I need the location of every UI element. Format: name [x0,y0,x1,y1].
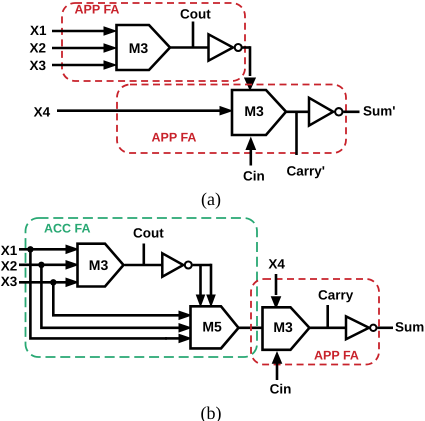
inverter U2 (a) [209,34,242,60]
svg-text:X3: X3 [1,274,18,289]
svg-text:X3: X3 [30,58,47,73]
node Carry stub (b) [326,305,329,328]
majority gate M5 (b) [191,306,239,348]
svg-text:APP FA: APP FA [75,3,120,17]
svg-text:M3: M3 [89,257,109,273]
label X1 (b) [1,243,18,258]
node Carry' stub (a) [295,112,298,155]
label X1 (a) [30,23,47,38]
label X4 (a) [34,104,51,119]
svg-text:(a): (a) [201,189,221,209]
majority gate M3 U7 (b) [263,307,310,350]
wire X4 into second M3 (a) [57,106,234,116]
wire X1 branch to M5 (b) [30,249,192,343]
svg-text:Cin: Cin [270,382,292,397]
label APP FA (a, second stage) [152,131,197,145]
wire second M3 output to inverter (a) [285,111,310,114]
svg-text:M5: M5 [202,319,222,335]
svg-text:M3: M3 [273,319,293,335]
wire M3 output to inverter (a) [170,46,209,49]
wire Cin into M3 (b) [272,351,283,380]
wire M3 output to inverter (b) [309,326,347,329]
svg-text:APP FA: APP FA [314,349,359,363]
svg-text:X2: X2 [30,40,47,55]
svg-text:Cin: Cin [243,169,265,184]
node Cout stub (b) [143,244,146,266]
svg-text:X2: X2 [1,258,18,273]
majority gate M3 U5 (b) [78,244,124,287]
svg-text:X4: X4 [34,104,51,119]
svg-text:Carry: Carry [318,287,354,302]
wire X2 into M3 (a) [52,43,118,53]
majority gate M3 U1 (a) [117,25,171,70]
label Cin (b) [270,382,292,397]
svg-text:APP FA: APP FA [152,131,197,145]
label Carry' (a) [287,164,325,179]
node Cout stub (a) [192,22,195,48]
svg-text:ACC FA: ACC FA [44,222,91,236]
wire X1 into M3 (a) [52,26,118,36]
wire M3 output to inverter (b) [125,264,164,267]
caption (b) [201,403,222,421]
svg-text:Cout: Cout [133,226,164,241]
svg-text:Carry': Carry' [287,164,325,179]
dashed box ACC FA (b) [26,218,258,357]
label APP FA (b) [314,349,359,363]
label Cout (b) [133,226,164,241]
svg-text:Sum': Sum' [363,103,395,118]
wire X1 into M3 (b) [19,245,80,255]
svg-text:Cout: Cout [180,6,211,21]
wire Cin into second M3 (a) [245,137,256,166]
svg-text:Sum': Sum' [395,320,425,335]
label Cout (a) [180,6,211,21]
wire X3 branch to M5 (b) [53,282,192,320]
caption (a) [201,189,221,209]
label X3 (a) [30,58,47,73]
inverter U8 (b) [346,316,376,339]
wire Sum' output (b) [377,326,393,329]
svg-text:M3: M3 [244,103,264,119]
label X2 (b) [1,258,18,273]
svg-text:X1: X1 [1,243,18,258]
wire X2 into M3 (b) [19,260,80,270]
wire inverter output down to second M3 (a) [243,46,257,91]
dashed box APP FA (a, first stage) [62,3,245,81]
inverter U4 (a) [309,98,342,126]
label ACC FA (b) [44,222,91,236]
wire X3 into M3 (a) [52,60,118,70]
label Sum' (a) [363,103,395,118]
label Carry (b) [318,287,354,302]
majority gate M3 U3 (a) [232,90,286,135]
label APP FA (a, first stage) [75,3,120,17]
junction dot on X2 (b) [38,262,44,268]
wire X4 into M3 (b) [271,274,282,309]
inverter U6 (b) [162,253,192,276]
svg-text:M3: M3 [129,40,149,56]
label X2 (a) [30,40,47,55]
label Cin (a) [243,169,265,184]
label X4 (b) [268,257,285,272]
svg-text:(b): (b) [201,403,222,421]
label Sum' (b) [395,320,425,335]
junction dot on X3 (b) [50,279,56,285]
wire X3 into M3 (b) [19,278,80,288]
wire inverter output double feed into M5 (b) [193,264,216,308]
wire X2 branch to M5 (b) [41,265,192,333]
dashed box APP FA (a, second stage) [117,85,346,154]
wire M5 output into M3 (b) [238,326,264,329]
svg-text:X4: X4 [268,257,285,272]
label X3 (b) [1,274,18,289]
wire Sum' output (a) [343,111,359,114]
junction dot on X1 (b) [27,246,33,252]
dashed box APP FA (b) [251,279,379,365]
svg-text:X1: X1 [30,23,47,38]
